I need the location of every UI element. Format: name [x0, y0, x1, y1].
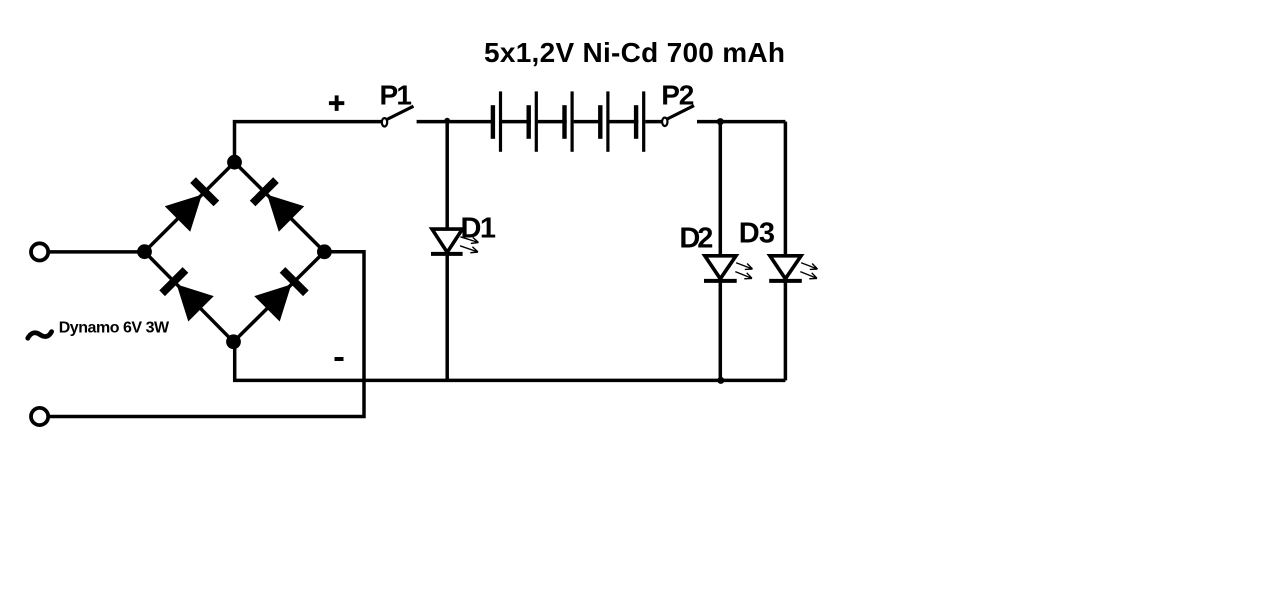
battery B1 cell 4	[598, 91, 609, 151]
label D2	[679, 223, 713, 255]
AC source symbol ~	[28, 332, 52, 339]
battery B1 cell 5	[634, 91, 645, 151]
node bridge top	[227, 155, 242, 170]
wire bridge arm lower-left	[145, 252, 234, 342]
node junction D2 top	[717, 118, 724, 125]
node junction D1 branch	[444, 118, 450, 124]
svg-text:D1: D1	[461, 213, 497, 245]
battery B1 cell 2	[527, 91, 538, 151]
label 5x1,2V Ni-Cd 700 mAh	[484, 37, 785, 68]
wire battery to P2	[645, 120, 662, 124]
label P2	[661, 80, 694, 111]
switch P2	[662, 106, 694, 126]
label -	[335, 357, 344, 361]
wire bridge arm upper-right	[235, 162, 325, 252]
wire D1 branch lower	[445, 254, 449, 381]
wire bridge arm upper-left	[145, 162, 235, 252]
svg-text:P2: P2	[661, 80, 694, 111]
wire bridge arm lower-right	[234, 252, 325, 342]
wire bridge right node to J2	[49, 252, 365, 417]
label D3	[739, 218, 775, 250]
node bridge bottom	[226, 334, 241, 349]
wire D3 branch upper	[784, 122, 788, 256]
switch P1	[382, 106, 414, 126]
battery B1 cell 3	[562, 91, 573, 151]
svg-text:D2: D2	[679, 223, 713, 255]
diode bridge upper-right	[249, 176, 305, 232]
label P1	[380, 79, 413, 110]
diode bridge lower-right	[254, 266, 310, 322]
wire DC+ bridge top to P1	[235, 122, 383, 162]
wire J1 to bridge left node	[49, 250, 146, 254]
label D1	[461, 213, 497, 245]
diode bridge lower-left	[158, 266, 214, 322]
node bridge right	[317, 244, 332, 259]
wire DC- bridge bottom to D3 branch	[235, 342, 786, 381]
terminal J2 (AC input lower)	[31, 408, 48, 425]
wire battery link 4	[609, 120, 638, 124]
svg-text:5x1,2V Ni-Cd 700 mAh: 5x1,2V Ni-Cd 700 mAh	[484, 37, 785, 68]
label Dynamo 6V 3W	[59, 320, 170, 337]
svg-text:D3: D3	[739, 218, 775, 250]
LED D1	[431, 229, 479, 255]
wire battery link 2	[538, 120, 567, 124]
terminal J1 (AC input upper)	[31, 243, 48, 260]
wire D3 branch lower	[784, 281, 788, 381]
svg-text:Dynamo 6V 3W: Dynamo 6V 3W	[59, 320, 170, 337]
wire D1 branch upper	[445, 122, 449, 230]
node junction D2 bottom	[717, 377, 724, 384]
wire D2 branch upper	[719, 122, 723, 256]
diode bridge upper-left	[165, 176, 221, 232]
LED D3	[769, 256, 818, 282]
wire battery link 3	[574, 120, 603, 124]
label +	[329, 95, 344, 111]
svg-text:P1: P1	[380, 79, 413, 110]
LED D2	[704, 256, 754, 282]
wire P1 to battery	[417, 120, 494, 124]
wire P2 to D3 branch corner	[697, 120, 785, 124]
wire battery link 1	[502, 120, 531, 124]
wire D2 branch lower	[719, 281, 723, 381]
battery B1 cell 1	[491, 91, 502, 151]
node bridge left	[137, 244, 152, 259]
